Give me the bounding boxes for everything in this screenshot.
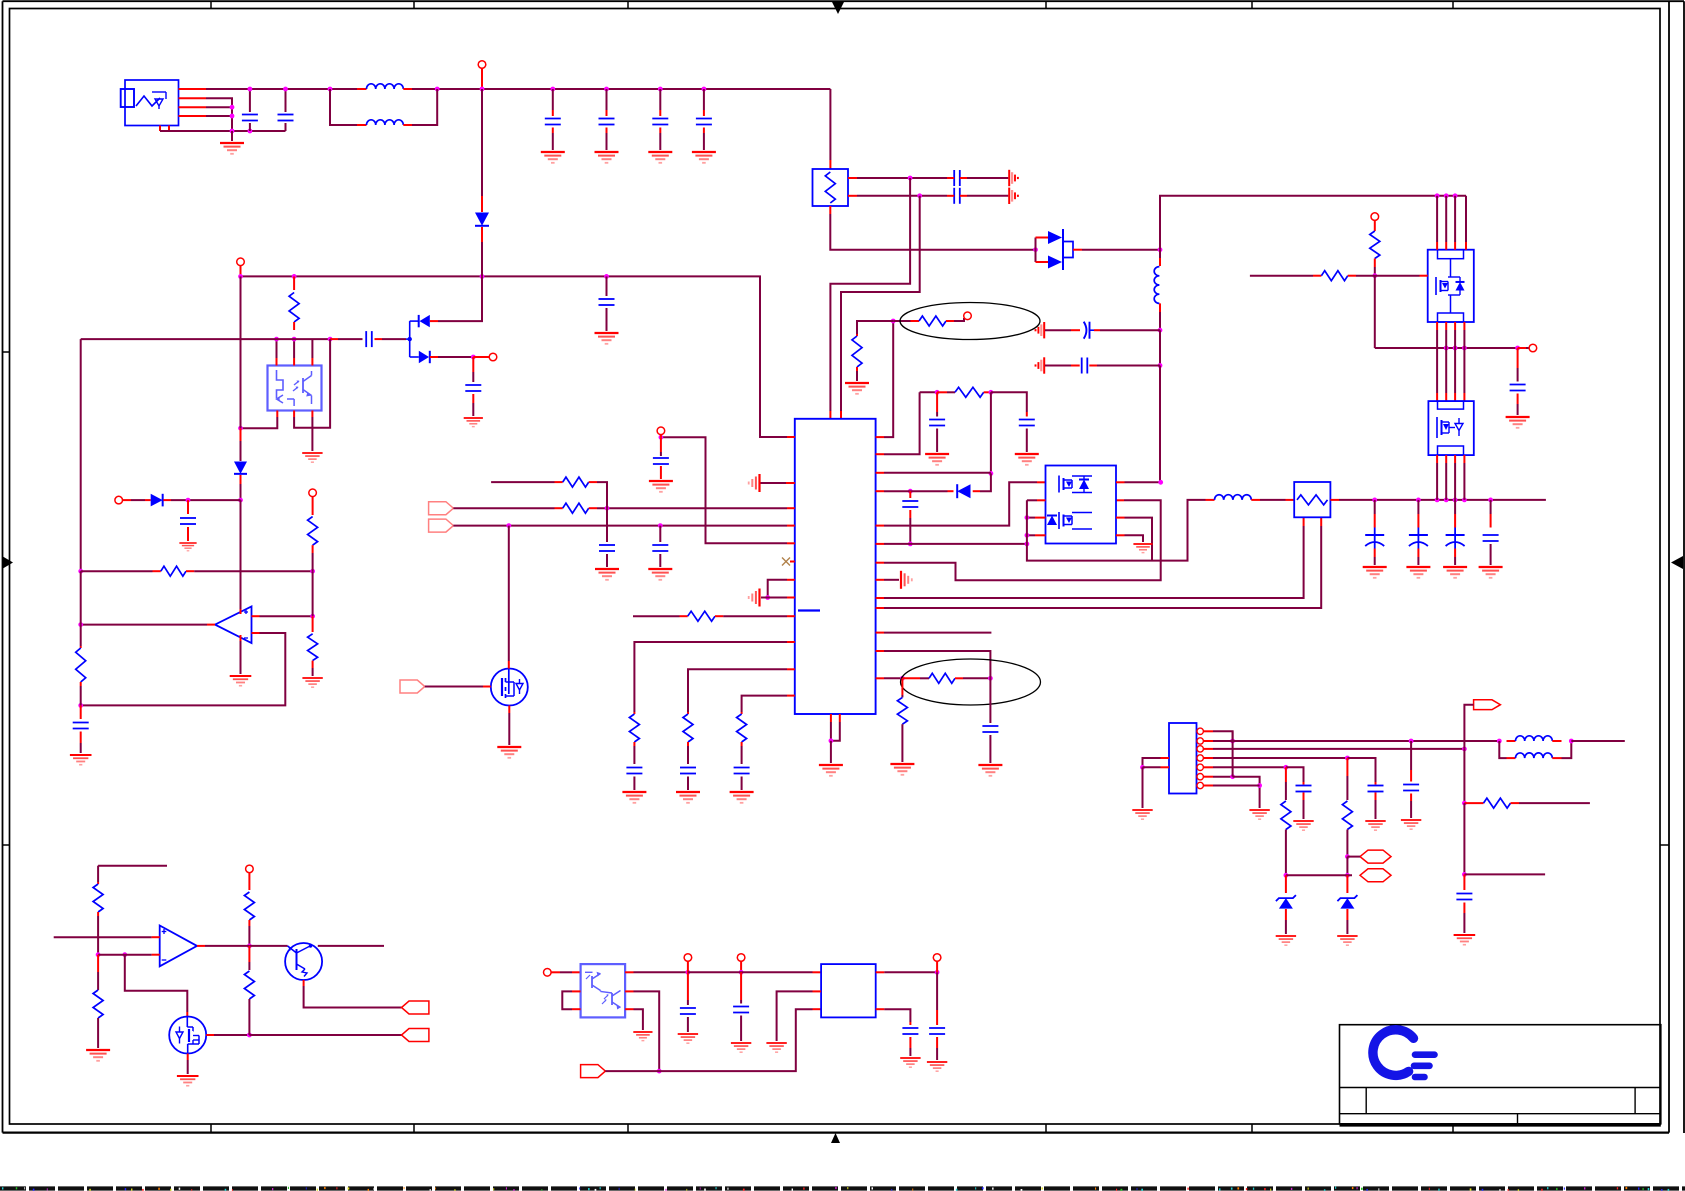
wire to Q3 base — [249, 945, 287, 947]
resistor R_g1 — [1370, 220, 1380, 267]
capacitor C_v1 — [1456, 874, 1472, 933]
ground U9 — [766, 1043, 786, 1052]
wire U5 t1 — [276, 339, 278, 358]
pin stub U5 t2 — [293, 358, 295, 366]
ground C_o2 — [927, 1062, 947, 1071]
junction — [908, 489, 913, 494]
ground C_fb1 — [595, 569, 619, 580]
pin U10-5 — [1197, 764, 1213, 770]
capacitor C_snub1 — [929, 392, 945, 452]
junction — [230, 129, 235, 134]
wire top stub — [98, 865, 167, 867]
port diamond NTC2 — [1360, 869, 1391, 882]
ground R_cs — [890, 764, 914, 775]
junction — [310, 569, 315, 574]
wire U1 L669 — [688, 669, 787, 712]
wire R_ct to U1 — [723, 615, 787, 617]
wire mid bus — [1375, 347, 1518, 349]
junction — [1444, 346, 1449, 351]
wire U5 b1 — [241, 417, 278, 428]
wire U1 L642 — [634, 642, 787, 712]
junction — [1444, 498, 1449, 503]
pin stub U8 r1 — [625, 971, 633, 973]
wire div mid — [312, 571, 314, 616]
pin stub U2 in1 — [1037, 481, 1046, 483]
border arrow top — [832, 2, 844, 14]
pin stub RT1 bottom — [829, 206, 831, 214]
wire COMP bus — [605, 1009, 812, 1071]
junction — [247, 1033, 252, 1038]
junction — [658, 523, 663, 528]
wire VOUT down — [1464, 705, 1473, 749]
junction — [1230, 739, 1235, 744]
resistor R_fb2 — [555, 477, 598, 487]
border ticks left — [3, 352, 10, 845]
ground R_b2 — [86, 1050, 110, 1061]
pin HV — [237, 258, 245, 266]
wire U1 bottom gnd — [830, 741, 832, 763]
capacitor C_r1 — [680, 972, 696, 1032]
wire sense node — [1463, 749, 1465, 803]
wire to port ISNS — [249, 1034, 401, 1036]
junction — [471, 355, 476, 360]
pin stub VIN — [481, 68, 483, 89]
junction — [908, 542, 913, 547]
junction — [658, 87, 663, 92]
junction — [1025, 542, 1030, 547]
wire choke loop — [330, 89, 357, 125]
wire U1 R491 — [884, 490, 902, 492]
pin stub U1 L543 — [787, 542, 795, 544]
junction — [247, 944, 252, 949]
pin stub U9 in3 — [813, 1008, 822, 1010]
wire R_d2 down — [312, 553, 314, 571]
ground C_fb2 — [648, 569, 672, 580]
capacitor C_L696 — [734, 746, 750, 790]
pin stub U5 t3 — [311, 358, 313, 366]
capacitor C_y1 — [947, 170, 967, 186]
ground C_v1 — [1454, 935, 1476, 945]
wire U4 bot 1437.1 — [1436, 455, 1438, 500]
wire comp supply — [240, 500, 242, 609]
pin stub U10 l1 — [1161, 757, 1170, 759]
pin stub U6 in+ — [252, 615, 260, 617]
wire U5 b2 — [294, 339, 330, 428]
wire L4 loop — [1499, 741, 1506, 758]
port flag VOUT — [1474, 700, 1501, 710]
pin stub U7 out — [197, 945, 205, 947]
pin VCC3 — [737, 954, 745, 962]
pin stub U2 r1 — [1116, 481, 1125, 483]
wire to chassis 1 — [967, 177, 1008, 179]
wire U1 L696 — [742, 696, 787, 712]
wire neutral to ground — [231, 131, 233, 141]
pin stub Q2 drain — [206, 1034, 214, 1036]
wire NTC1 — [1347, 856, 1360, 858]
junction — [435, 87, 440, 92]
ground C_snub2 — [1015, 454, 1039, 465]
resistor R_b1 — [93, 866, 103, 916]
ground L669 — [676, 792, 700, 803]
port flag COMP — [581, 1065, 606, 1078]
junction — [989, 471, 994, 476]
pin stub U2 r4 — [1116, 534, 1125, 536]
ground C_s1 — [1365, 821, 1385, 830]
ground C_filter4 — [692, 152, 716, 163]
junction — [604, 274, 609, 279]
junction — [935, 390, 940, 395]
ground C_out4 — [1479, 567, 1503, 578]
chassis ground Y3 — [1036, 322, 1045, 338]
ground U10 pins — [1249, 810, 1269, 819]
wire U10-7 — [1213, 785, 1260, 787]
pin stub U1 R651 — [876, 650, 884, 652]
pin stub U1 R544 — [876, 543, 884, 545]
ground U1 L483 — [749, 474, 760, 492]
wire snub right — [991, 392, 1027, 412]
pin stub 3V3 — [936, 961, 938, 972]
wire VCC3 bus — [688, 971, 813, 973]
capacitor C_vref — [653, 437, 669, 479]
capacitor C_o1 — [902, 1022, 918, 1056]
pin stub J1 shield b — [168, 126, 170, 132]
junction — [1488, 498, 1493, 503]
wire choke loop right — [412, 89, 437, 125]
wire U4 bot 1446.2 — [1445, 455, 1447, 500]
pin stub U8 l3 — [572, 1008, 581, 1010]
resistor R_cs — [897, 678, 907, 762]
MOSFET box U3 — [1428, 250, 1474, 322]
ground C_mid — [1506, 417, 1530, 428]
wire RT1 r2 — [857, 195, 947, 197]
ground Q2 — [177, 1076, 199, 1086]
junction — [248, 129, 253, 134]
pin stub U5 b3 — [311, 411, 313, 418]
junction — [292, 274, 297, 279]
wire D_in bottom — [481, 242, 483, 276]
resistor R_L642 — [629, 712, 639, 746]
ground C_hv — [595, 333, 619, 344]
pin stub U5 b2 — [293, 411, 295, 418]
junction — [900, 676, 905, 681]
wire snsB — [1286, 767, 1304, 782]
pin U10-4 — [1197, 755, 1213, 761]
ground L696 — [730, 792, 754, 803]
wire left rail — [80, 339, 82, 571]
wire R_e2 right — [963, 677, 990, 679]
junction — [765, 595, 770, 600]
pin stub J1-2 — [179, 97, 207, 99]
pin stub U1 L642 — [787, 641, 795, 643]
junction — [1416, 498, 1421, 503]
port flag ISNS — [402, 1029, 429, 1042]
ground C_vref — [649, 481, 673, 492]
junction — [274, 337, 279, 342]
junction — [1462, 346, 1467, 351]
resistor R_g2 — [1313, 271, 1356, 281]
wire SW bus — [1339, 499, 1546, 501]
pin stub U9 out2 — [876, 1008, 885, 1010]
wire U2 r4 — [1125, 535, 1144, 542]
pin stub U1 R633 — [876, 632, 884, 634]
capacitor CX2 — [278, 89, 294, 131]
pin stub U9 out1 — [876, 971, 885, 973]
junction — [1345, 854, 1350, 859]
wire L3 to T1 — [1260, 499, 1286, 501]
wire R_b1 down — [97, 916, 99, 955]
pin stub RT1-r2 — [848, 195, 857, 197]
pin stub U5 b1 — [276, 411, 278, 418]
wire snub top — [920, 391, 938, 393]
pin stub J1-3 — [179, 106, 207, 108]
pin stub D2 bot — [430, 356, 438, 358]
junction — [908, 176, 913, 181]
wire aux node down — [1374, 276, 1376, 348]
wire U1 L580 — [768, 580, 787, 598]
diode D4 — [123, 494, 172, 507]
wire snsA — [1347, 758, 1375, 782]
pin stub U2 out3 — [1035, 517, 1046, 519]
wire node to U2 — [1159, 366, 1161, 483]
pin U10-6 — [1197, 774, 1213, 780]
ground C_s2 — [1293, 821, 1313, 830]
capacitor C_y4 — [1045, 358, 1097, 374]
wire R_s1 down — [1346, 857, 1348, 876]
chassis ground Y4 — [1036, 357, 1045, 373]
junction — [186, 498, 191, 503]
wire U1 R563 — [884, 500, 1161, 580]
capacitor C_snub2 — [1019, 412, 1035, 452]
junction — [1372, 273, 1377, 278]
wire U3 top 1437.1 — [1436, 196, 1438, 250]
wire to pin mid — [1526, 347, 1529, 349]
wire L2 down — [1159, 312, 1161, 330]
pin stub VD — [473, 356, 489, 358]
wire row482 — [491, 481, 554, 483]
ground L642 — [622, 792, 646, 803]
junction — [1453, 346, 1458, 351]
ground C_cs — [978, 765, 1002, 776]
ground C_filter3 — [648, 152, 672, 163]
pin stub opto2 in — [551, 971, 560, 973]
pin stub U6 in- — [252, 632, 260, 634]
junction — [1515, 346, 1520, 351]
wire U3 top 1455.1 — [1454, 196, 1456, 250]
wire U3 top 1446.2 — [1445, 196, 1447, 250]
chassis ground Y1 — [1009, 170, 1018, 186]
pin VREF2 — [684, 954, 692, 962]
transistor Q3 (digital) — [285, 943, 322, 980]
ground C_out3 — [1443, 567, 1467, 578]
junction — [989, 390, 994, 395]
wire U2 p2 stub — [1027, 499, 1037, 501]
junction — [1345, 756, 1350, 761]
pin stub U2 out4 — [1035, 534, 1046, 536]
diode D_in — [475, 196, 489, 242]
junction — [230, 114, 235, 119]
resistor R_d3 — [308, 616, 318, 668]
junction — [238, 426, 243, 431]
ground U2 — [1133, 544, 1152, 553]
wire U9 gnd — [777, 991, 813, 1041]
wire U1 R580 gnd — [884, 579, 899, 581]
wire U3-U4 1464.4 — [1463, 322, 1465, 401]
junction — [1140, 765, 1145, 770]
pin stub T1 b2 — [1320, 517, 1322, 526]
wire R_e1 pin — [954, 318, 964, 321]
optocoupler U5 — [268, 366, 322, 411]
title block frame — [1340, 1025, 1661, 1126]
wire U1 L543 up — [661, 437, 787, 543]
junction — [605, 506, 610, 511]
junction — [1025, 515, 1030, 520]
pin stub U1 bot2 — [839, 714, 841, 722]
wire DRV to Q1 — [425, 686, 483, 688]
capacitor C_d — [330, 331, 382, 347]
ground U8 — [633, 1032, 652, 1041]
border arrow right — [1671, 556, 1683, 569]
wire U1 L597 — [761, 597, 787, 599]
wire U9 out — [884, 971, 937, 973]
wire to Q1 gate — [508, 526, 510, 661]
pin U10-3 — [1197, 746, 1213, 752]
resistor R_snub2 — [937, 387, 991, 397]
wire R_v1 out — [1519, 802, 1590, 804]
resistor R_ct — [680, 611, 724, 621]
resistor R_e2 — [902, 673, 963, 683]
ground D6 — [1337, 936, 1357, 945]
junction — [78, 622, 83, 627]
capacitor C_filter1 — [545, 89, 561, 150]
junction — [1435, 498, 1440, 503]
junction — [1453, 193, 1458, 198]
resistor R_L669 — [683, 712, 693, 746]
resistor R_L696 — [737, 712, 747, 746]
capacitor C_comp — [73, 705, 89, 753]
junction — [550, 87, 555, 92]
wire sense node 2 — [1463, 803, 1465, 874]
junction — [1453, 498, 1458, 503]
wire U10-6 — [1213, 776, 1233, 778]
capacitor C_out2 — [1409, 500, 1428, 565]
wire U10 l1 — [1143, 758, 1161, 767]
pin stub VREF2 — [687, 961, 689, 972]
junction — [78, 703, 83, 708]
wire D3 down — [240, 484, 242, 500]
junction — [1345, 873, 1350, 878]
junction — [480, 274, 485, 279]
wire J1-4 — [206, 115, 232, 117]
wire U10-1 — [1213, 731, 1233, 741]
capacitor C_L669 — [680, 746, 696, 790]
pin U10-7 — [1197, 782, 1213, 788]
wire D2 bot — [438, 356, 473, 358]
wire R_d3 gnd — [312, 668, 314, 676]
resistor R_opto — [289, 276, 299, 330]
port flag DRV — [400, 680, 425, 693]
pin stub U2 in2 — [1116, 499, 1124, 501]
wire U8 r1 — [634, 971, 688, 973]
pin stub U1 L696 — [787, 695, 795, 697]
chassis ground Y2 — [1009, 188, 1018, 204]
wire fb loop — [125, 955, 188, 1012]
ground U10 left — [1132, 810, 1152, 819]
junction — [1158, 363, 1163, 368]
capacitor C_mid — [1510, 348, 1526, 415]
wire in+ bus — [54, 936, 152, 938]
wire Q2 src gnd — [187, 1060, 189, 1074]
wire U8 r3 — [634, 1009, 643, 1030]
junction — [1444, 193, 1449, 198]
pin stub J1 shield a — [159, 126, 161, 132]
wire J1-2 to neutral — [206, 98, 232, 131]
wire Q2 drain — [214, 1034, 249, 1036]
diode D3 — [234, 428, 247, 484]
wire U1 R437 — [884, 321, 893, 437]
pin stub D2 top — [430, 320, 438, 322]
wire U5 t3 — [311, 339, 313, 358]
wire snub mid down — [990, 392, 992, 473]
pin stub U1 L580 — [787, 579, 795, 581]
capacitor C_fb1 — [599, 508, 615, 567]
resistor R_v1 — [1464, 798, 1519, 808]
resistor R_d4 — [76, 625, 86, 706]
resistor R_s2 — [1281, 767, 1291, 875]
pin stub U1 L437 — [787, 436, 795, 438]
wire U1 R608 bus — [884, 526, 1321, 608]
ground AC — [220, 143, 244, 154]
capacitor C_fb2 — [652, 526, 668, 567]
pin VREF — [657, 427, 665, 435]
pin stub U1 R580 — [876, 579, 884, 581]
pin stub U6 out — [207, 624, 215, 626]
decorative bottom strip — [0, 1187, 1685, 1191]
pin stub VREF — [660, 435, 662, 438]
wire U3-U4 1455.1 — [1454, 322, 1456, 401]
capacitor C_cs — [982, 672, 998, 763]
junction — [1569, 739, 1574, 744]
regulator U9 — [821, 964, 876, 1017]
pin stub U10 l2 — [1161, 766, 1170, 768]
capacitor C_y2 — [947, 188, 967, 204]
border arrow left — [2, 556, 13, 569]
pin stub T1 right — [1330, 499, 1339, 501]
wire U1 R454 — [884, 392, 920, 454]
port flag PROT — [402, 1001, 429, 1014]
resistor R_snub1 — [852, 334, 862, 371]
junction — [1372, 498, 1377, 503]
pin stub U1 L483 — [786, 482, 795, 484]
wire RT1 to TVS bus — [830, 214, 1035, 250]
port flag FB2 — [429, 519, 454, 532]
wire R_fb2 corner — [597, 482, 607, 508]
diode D_boot — [948, 484, 981, 498]
company logo — [1373, 1030, 1435, 1077]
junction — [935, 970, 940, 975]
pin stub U9 in2 — [813, 990, 822, 992]
wire U2 r3 — [1125, 518, 1153, 561]
wire AC line bus — [206, 88, 357, 90]
pin stub U1 R598 — [876, 597, 884, 599]
capacitor C_filter3 — [652, 89, 668, 150]
pin stub U1 R437 — [876, 436, 884, 438]
junction — [1230, 774, 1235, 779]
inductor L2 — [1154, 250, 1160, 312]
junction — [1284, 765, 1289, 770]
pin stub Q2 src — [187, 1054, 189, 1061]
wire U8 r2 — [634, 991, 660, 1071]
junction — [328, 87, 333, 92]
